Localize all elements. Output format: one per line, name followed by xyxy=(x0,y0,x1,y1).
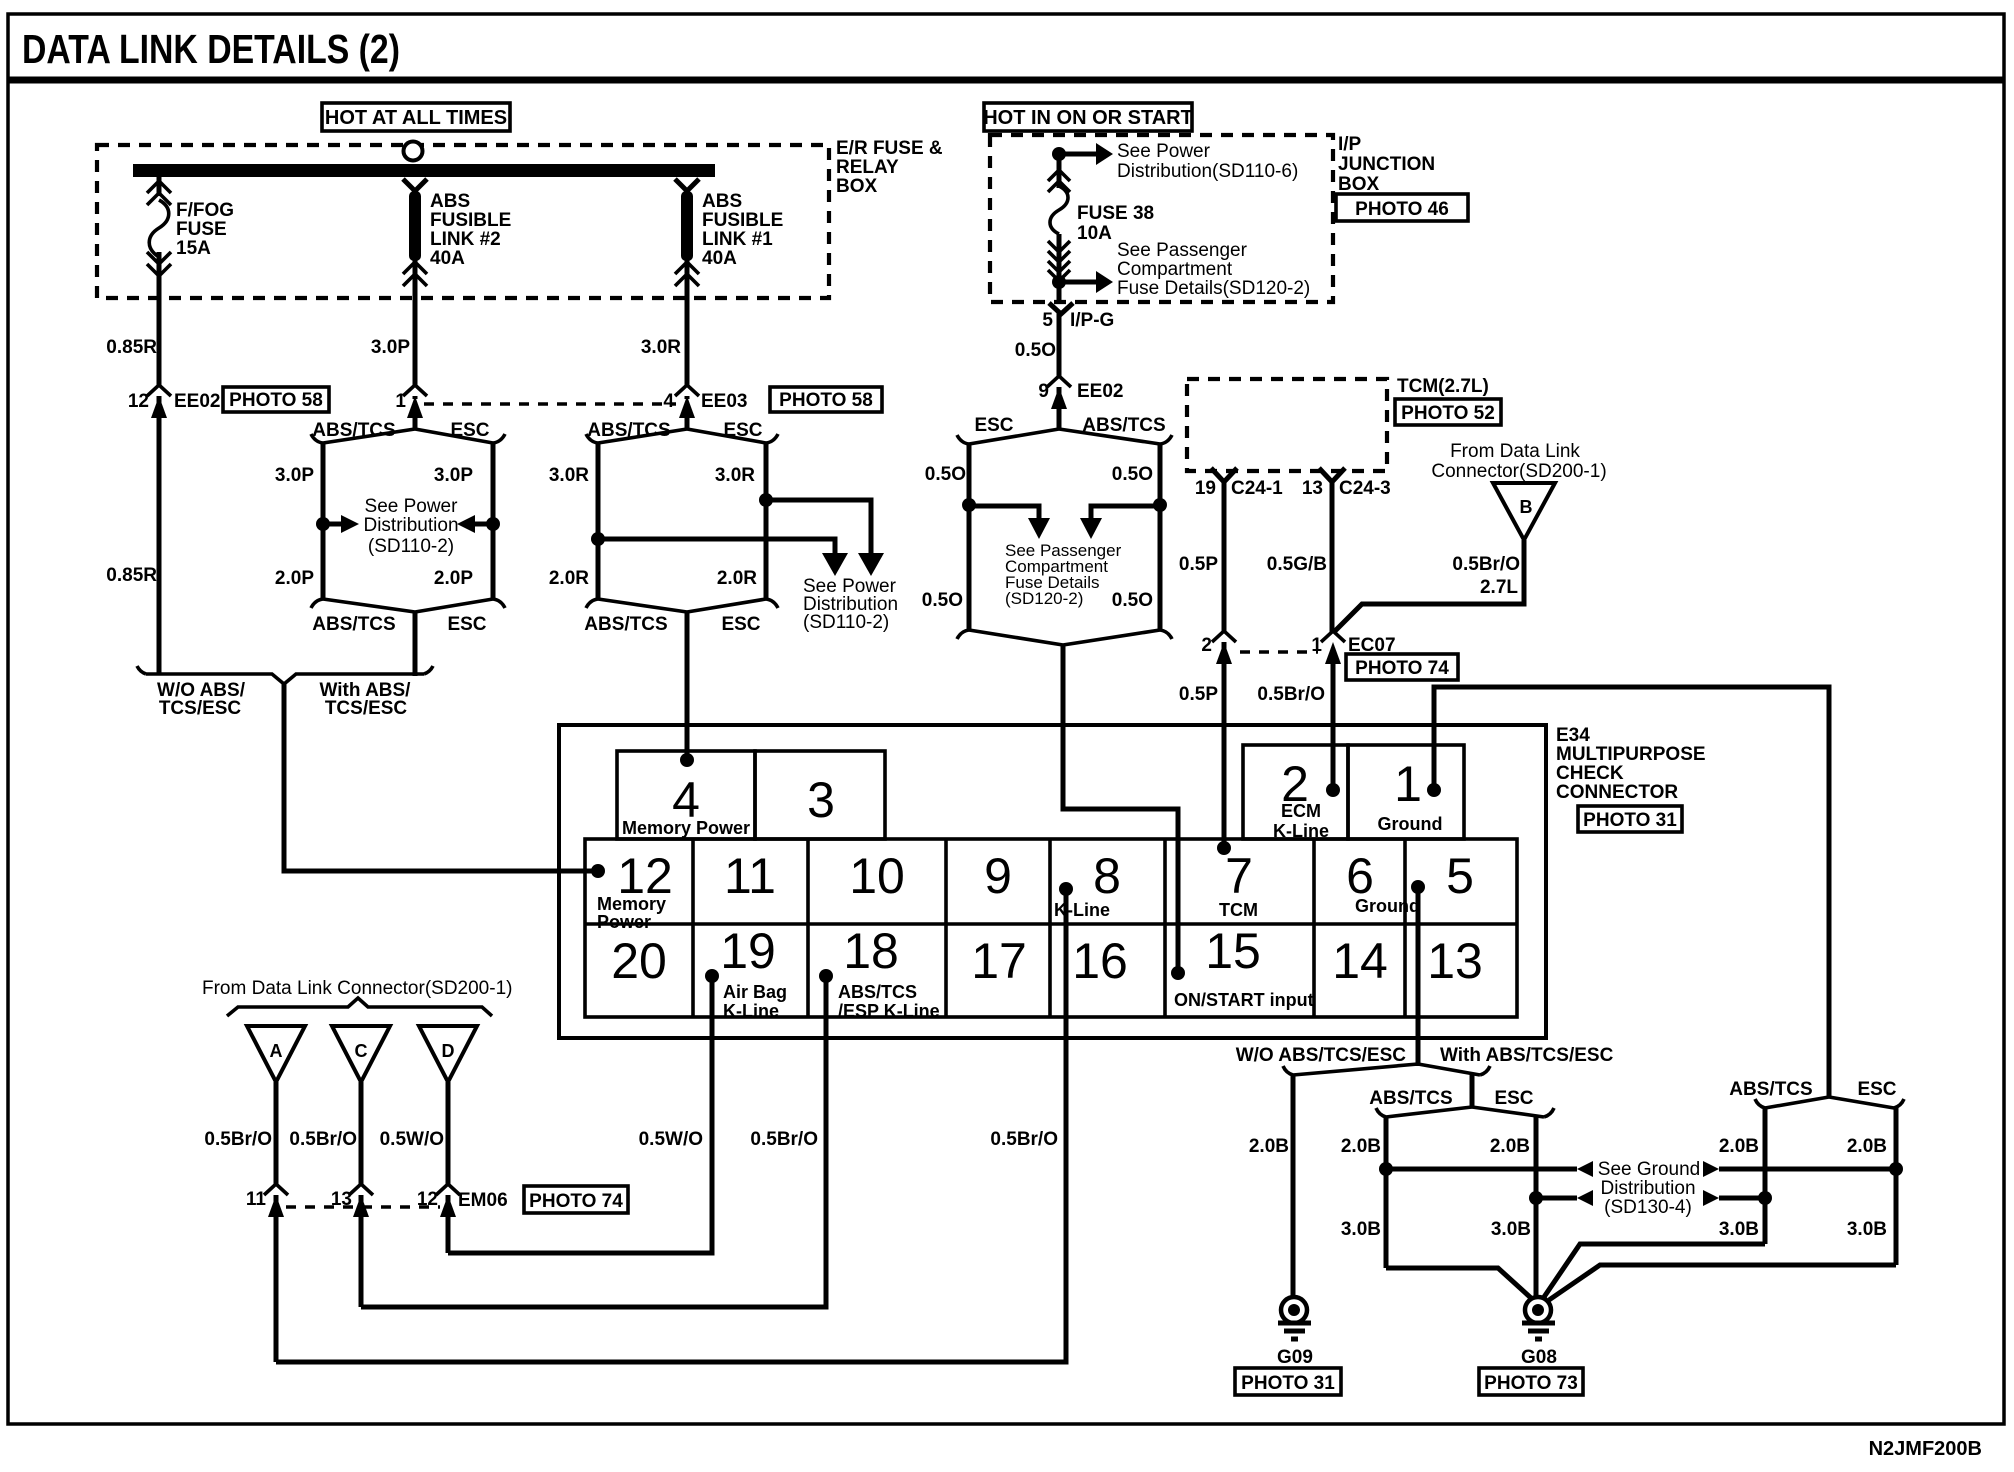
svg-text:3.0R: 3.0R xyxy=(641,337,681,358)
svg-text:20: 20 xyxy=(611,933,667,989)
svg-text:K-Line: K-Line xyxy=(723,1001,779,1021)
svg-text:PHOTO 73: PHOTO 73 xyxy=(1484,1373,1578,1394)
svg-text:ABS/TCS: ABS/TCS xyxy=(584,614,667,635)
svg-text:C24-3: C24-3 xyxy=(1339,478,1391,499)
svg-text:BOX: BOX xyxy=(1338,174,1380,195)
svg-text:2.0B: 2.0B xyxy=(1490,1136,1530,1157)
svg-text:CONNECTOR: CONNECTOR xyxy=(1556,782,1678,803)
svg-text:0.5O: 0.5O xyxy=(1112,464,1153,485)
svg-text:F/FOG: F/FOG xyxy=(176,200,234,221)
svg-text:0.5G/B: 0.5G/B xyxy=(1267,554,1327,575)
svg-text:3.0R: 3.0R xyxy=(549,465,589,486)
svg-text:3.0B: 3.0B xyxy=(1719,1219,1759,1240)
svg-text:MULTIPURPOSE: MULTIPURPOSE xyxy=(1556,744,1706,765)
svg-text:K-Line: K-Line xyxy=(1054,900,1110,920)
svg-text:(SD110-2): (SD110-2) xyxy=(803,612,889,633)
svg-text:G09: G09 xyxy=(1277,1347,1313,1368)
svg-text:EM06: EM06 xyxy=(458,1190,508,1211)
svg-text:FUSIBLE: FUSIBLE xyxy=(702,210,783,231)
svg-text:I/P-G: I/P-G xyxy=(1070,310,1114,331)
svg-text:ESC: ESC xyxy=(1857,1079,1896,1100)
svg-text:Distribution: Distribution xyxy=(1600,1178,1695,1199)
svg-text:0.5W/O: 0.5W/O xyxy=(380,1129,444,1150)
svg-text:Memory Power: Memory Power xyxy=(622,818,750,838)
svg-text:LINK #1: LINK #1 xyxy=(702,229,773,250)
svg-text:10: 10 xyxy=(849,848,905,904)
svg-text:(SD110-2): (SD110-2) xyxy=(368,536,454,557)
svg-text:PHOTO 58: PHOTO 58 xyxy=(779,390,873,411)
svg-text:0.5Br/O: 0.5Br/O xyxy=(289,1129,357,1150)
svg-text:2.0P: 2.0P xyxy=(275,568,314,589)
svg-text:0.5O: 0.5O xyxy=(1112,590,1153,611)
svg-text:See Power: See Power xyxy=(1117,141,1211,162)
svg-text:4: 4 xyxy=(663,391,674,412)
svg-text:3: 3 xyxy=(807,772,835,828)
svg-text:E/R FUSE &: E/R FUSE & xyxy=(836,138,943,159)
svg-text:0.5O: 0.5O xyxy=(925,464,966,485)
svg-text:0.5P: 0.5P xyxy=(1179,684,1218,705)
svg-text:EE02: EE02 xyxy=(174,391,220,412)
svg-text:Air Bag: Air Bag xyxy=(723,982,787,1002)
svg-text:BOX: BOX xyxy=(836,176,878,197)
svg-text:12: 12 xyxy=(128,391,149,412)
svg-text:2.0R: 2.0R xyxy=(549,568,589,589)
svg-text:ESC: ESC xyxy=(1494,1088,1533,1109)
svg-text:0.5Br/O: 0.5Br/O xyxy=(750,1129,818,1150)
svg-text:ABS: ABS xyxy=(702,191,742,212)
svg-text:JUNCTION: JUNCTION xyxy=(1338,154,1435,175)
svg-text:3.0R: 3.0R xyxy=(715,465,755,486)
svg-text:40A: 40A xyxy=(702,248,737,269)
svg-text:3.0P: 3.0P xyxy=(275,465,314,486)
svg-text:0.5P: 0.5P xyxy=(1179,554,1218,575)
svg-text:ABS/TCS: ABS/TCS xyxy=(587,420,670,441)
svg-text:ESC: ESC xyxy=(450,420,489,441)
svg-text:PHOTO 52: PHOTO 52 xyxy=(1401,403,1495,424)
svg-text:Distribution(SD110-6): Distribution(SD110-6) xyxy=(1117,161,1298,182)
svg-text:5: 5 xyxy=(1042,310,1053,331)
svg-text:FUSE 38: FUSE 38 xyxy=(1077,203,1154,224)
svg-text:B: B xyxy=(1520,497,1533,517)
svg-text:Distribution: Distribution xyxy=(363,515,458,536)
svg-text:(SD130-4): (SD130-4) xyxy=(1604,1197,1692,1218)
svg-text:1: 1 xyxy=(395,391,406,412)
svg-text:5: 5 xyxy=(1446,848,1474,904)
svg-text:11: 11 xyxy=(246,1189,267,1210)
svg-text:ABS/TCS: ABS/TCS xyxy=(312,614,395,635)
svg-text:HOT AT ALL TIMES: HOT AT ALL TIMES xyxy=(325,107,507,129)
svg-text:PHOTO 74: PHOTO 74 xyxy=(529,1191,623,1212)
svg-text:ESC: ESC xyxy=(721,614,760,635)
svg-text:From Data Link Connector(SD200: From Data Link Connector(SD200-1) xyxy=(202,978,512,999)
svg-text:3.0B: 3.0B xyxy=(1491,1219,1531,1240)
svg-text:LINK #2: LINK #2 xyxy=(430,229,501,250)
svg-text:FUSIBLE: FUSIBLE xyxy=(430,210,511,231)
svg-text:Compartment: Compartment xyxy=(1117,259,1233,280)
svg-text:HOT IN ON OR START: HOT IN ON OR START xyxy=(983,107,1193,129)
svg-text:ESC: ESC xyxy=(447,614,486,635)
svg-text:E34: E34 xyxy=(1556,725,1590,746)
svg-text:ABS: ABS xyxy=(430,191,470,212)
svg-text:N2JMF200B: N2JMF200B xyxy=(1869,1438,1982,1460)
svg-text:9: 9 xyxy=(984,848,1012,904)
svg-text:C24-1: C24-1 xyxy=(1231,478,1283,499)
svg-text:ESC: ESC xyxy=(723,420,762,441)
svg-text:ON/START input: ON/START input xyxy=(1174,990,1314,1010)
svg-text:CHECK: CHECK xyxy=(1556,763,1624,784)
svg-text:15A: 15A xyxy=(176,238,211,259)
svg-text:Ground: Ground xyxy=(1355,896,1420,916)
svg-text:18: 18 xyxy=(843,923,899,979)
svg-text:9: 9 xyxy=(1038,381,1049,402)
svg-text:3.0B: 3.0B xyxy=(1341,1219,1381,1240)
svg-text:0.5W/O: 0.5W/O xyxy=(639,1129,703,1150)
svg-text:Fuse Details(SD120-2): Fuse Details(SD120-2) xyxy=(1117,278,1310,299)
svg-text:3.0B: 3.0B xyxy=(1847,1219,1887,1240)
svg-text:0.5Br/O: 0.5Br/O xyxy=(1257,684,1325,705)
svg-text:PHOTO 74: PHOTO 74 xyxy=(1355,658,1449,679)
svg-text:W/O ABS/TCS/ESC: W/O ABS/TCS/ESC xyxy=(1236,1045,1407,1066)
svg-text:0.85R: 0.85R xyxy=(106,565,157,586)
svg-text:0.5O: 0.5O xyxy=(1015,340,1056,361)
svg-text:See Power: See Power xyxy=(365,496,459,517)
svg-text:10A: 10A xyxy=(1077,223,1112,244)
svg-text:17: 17 xyxy=(971,933,1027,989)
svg-text:Power: Power xyxy=(597,912,651,932)
svg-text:2: 2 xyxy=(1201,635,1212,656)
svg-text:EE03: EE03 xyxy=(701,391,747,412)
svg-text:ABS/TCS: ABS/TCS xyxy=(1082,415,1165,436)
svg-text:2.0B: 2.0B xyxy=(1341,1136,1381,1157)
svg-text:I/P: I/P xyxy=(1338,134,1362,155)
svg-text:8: 8 xyxy=(1093,848,1121,904)
svg-text:14: 14 xyxy=(1332,933,1388,989)
svg-text:With ABS/TCS/ESC: With ABS/TCS/ESC xyxy=(1440,1045,1614,1066)
svg-text:See Passenger: See Passenger xyxy=(1117,240,1248,261)
svg-text:13: 13 xyxy=(1302,478,1323,499)
svg-text:7: 7 xyxy=(1225,848,1253,904)
svg-text:0.5O: 0.5O xyxy=(922,590,963,611)
svg-text:C: C xyxy=(355,1041,368,1061)
svg-text:TCM(2.7L): TCM(2.7L) xyxy=(1397,376,1489,397)
svg-text:2.7L: 2.7L xyxy=(1480,577,1518,598)
svg-text:PHOTO 58: PHOTO 58 xyxy=(229,390,323,411)
svg-text:FUSE: FUSE xyxy=(176,219,227,240)
svg-text:PHOTO 31: PHOTO 31 xyxy=(1583,810,1677,831)
svg-text:19: 19 xyxy=(1195,478,1216,499)
svg-text:2.0B: 2.0B xyxy=(1847,1136,1887,1157)
svg-text:See Ground: See Ground xyxy=(1598,1159,1700,1180)
svg-text:A: A xyxy=(270,1041,283,1061)
svg-text:16: 16 xyxy=(1072,933,1128,989)
svg-text:3.0P: 3.0P xyxy=(434,465,473,486)
svg-text:TCS/ESC: TCS/ESC xyxy=(325,698,408,719)
svg-text:RELAY: RELAY xyxy=(836,157,899,178)
svg-text:ECM: ECM xyxy=(1281,801,1321,821)
svg-text:0.85R: 0.85R xyxy=(106,337,157,358)
svg-text:G08: G08 xyxy=(1521,1347,1557,1368)
svg-text:(SD120-2): (SD120-2) xyxy=(1005,589,1083,608)
svg-text:1: 1 xyxy=(1394,756,1422,812)
svg-text:Connector(SD200-1): Connector(SD200-1) xyxy=(1431,461,1606,482)
svg-text:/ESP K-Line: /ESP K-Line xyxy=(838,1001,940,1021)
svg-text:ABS/TCS: ABS/TCS xyxy=(1729,1079,1812,1100)
svg-text:PHOTO 31: PHOTO 31 xyxy=(1241,1373,1335,1394)
svg-text:19: 19 xyxy=(720,923,776,979)
svg-text:ABS/TCS: ABS/TCS xyxy=(1369,1088,1452,1109)
svg-text:ABS/TCS: ABS/TCS xyxy=(312,420,395,441)
svg-text:PHOTO 46: PHOTO 46 xyxy=(1355,199,1449,220)
svg-text:2.0P: 2.0P xyxy=(434,568,473,589)
svg-text:From Data Link: From Data Link xyxy=(1450,441,1580,462)
svg-text:0.5Br/O: 0.5Br/O xyxy=(990,1129,1058,1150)
svg-text:11: 11 xyxy=(724,848,776,904)
svg-text:D: D xyxy=(442,1041,455,1061)
svg-text:2.0R: 2.0R xyxy=(717,568,757,589)
svg-text:DATA LINK DETAILS (2): DATA LINK DETAILS (2) xyxy=(22,26,400,72)
svg-text:ABS/TCS: ABS/TCS xyxy=(838,982,917,1002)
svg-text:Ground: Ground xyxy=(1378,814,1443,834)
svg-text:Memory: Memory xyxy=(597,894,666,914)
svg-text:15: 15 xyxy=(1205,923,1261,979)
svg-text:EE02: EE02 xyxy=(1077,381,1123,402)
svg-text:3.0P: 3.0P xyxy=(371,337,410,358)
svg-text:13: 13 xyxy=(1427,933,1483,989)
svg-text:TCS/ESC: TCS/ESC xyxy=(159,698,242,719)
svg-text:0.5Br/O: 0.5Br/O xyxy=(204,1129,272,1150)
svg-text:ESC: ESC xyxy=(974,415,1013,436)
svg-text:TCM: TCM xyxy=(1219,900,1258,920)
svg-text:2.0B: 2.0B xyxy=(1719,1136,1759,1157)
svg-text:0.5Br/O: 0.5Br/O xyxy=(1452,554,1520,575)
svg-text:40A: 40A xyxy=(430,248,465,269)
svg-text:2.0B: 2.0B xyxy=(1249,1136,1289,1157)
